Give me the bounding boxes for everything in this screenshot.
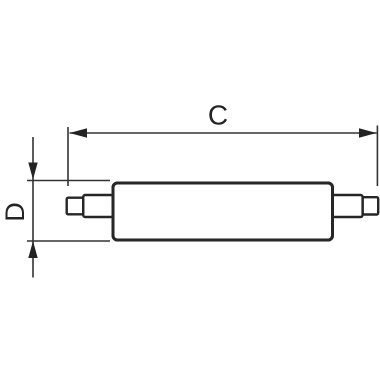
- dimension D arrow top: [28, 163, 37, 180]
- left contact pin: [67, 198, 84, 215]
- dimension C extension line left: [67, 127, 69, 186]
- lamp tube body: [113, 183, 333, 240]
- right contact pin: [363, 197, 379, 214]
- dimension D extension line bottom: [27, 240, 110, 242]
- dimension C extension line right: [376, 126, 378, 187]
- dimension C line: [70, 132, 377, 134]
- dimension C arrow right: [359, 128, 377, 137]
- right end cap: [332, 195, 363, 217]
- left end cap: [83, 195, 113, 217]
- svg-text:C: C: [208, 100, 228, 131]
- lamp tube body redrawn on top: [113, 183, 333, 240]
- dimension D line: [32, 137, 34, 278]
- dimension C arrow left: [70, 128, 88, 137]
- dimension D extension line top: [27, 180, 110, 182]
- dimension D arrow bottom: [28, 241, 37, 258]
- svg-text:D: D: [0, 202, 30, 222]
